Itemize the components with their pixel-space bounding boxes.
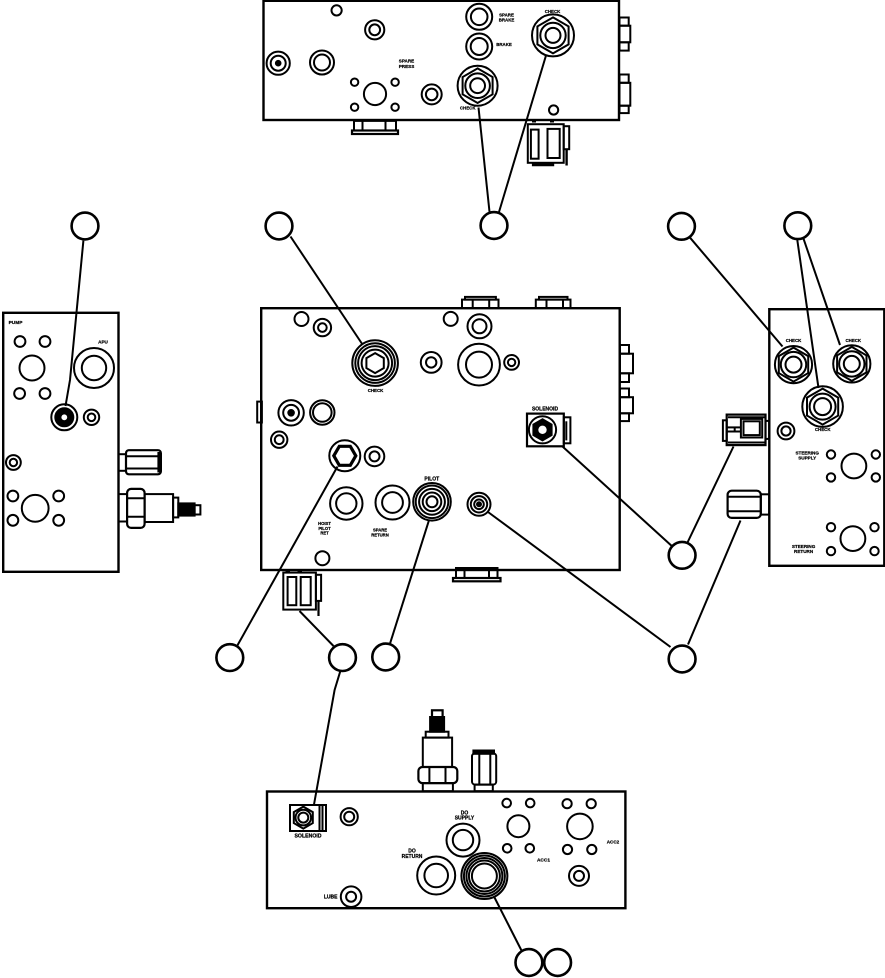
svg-text:PILOT: PILOT (424, 477, 439, 483)
hole (14, 388, 25, 399)
top fitting 2 (536, 297, 571, 308)
acc1 cluster (502, 799, 534, 853)
svg-text:SPARE: SPARE (399, 59, 415, 64)
side fitting right upper (620, 18, 631, 51)
bottom hex plug fitting (352, 121, 398, 134)
edge ring port (6, 455, 21, 470)
svg-text:SUPPLY: SUPPLY (798, 456, 816, 461)
balloon callout B12 (544, 949, 571, 976)
ring port (421, 352, 442, 373)
svg-text:ACC1: ACC1 (537, 857, 550, 863)
left edge stub fitting (257, 402, 262, 423)
leader center solenoid to B9 (563, 447, 672, 547)
svg-text:BRAKE: BRAKE (499, 17, 515, 22)
label HOIST PILOT RET (318, 521, 331, 536)
svg-text:APU: APU (98, 340, 108, 345)
hole top left (295, 312, 309, 326)
check port 1 (775, 346, 812, 383)
check port 2 (833, 345, 870, 382)
leader right hex fitting to B10 (688, 521, 741, 645)
small port (balloon 10 target) (468, 493, 491, 516)
electrical connector below center block (balloon 7 target) (283, 571, 321, 616)
big double ring port (458, 344, 500, 386)
solenoid connector fitting left side (balloon 9 target) (723, 415, 769, 446)
label SPARE RETURN (371, 528, 388, 538)
balloon callout B8 (372, 644, 399, 671)
balloon callout B1 (72, 213, 99, 240)
balloon callout B4 (668, 213, 695, 240)
large port (20, 356, 45, 381)
balloon callout B10 (669, 646, 696, 673)
svg-text:RETURN: RETURN (402, 854, 423, 860)
svg-text:CHECK: CHECK (368, 388, 384, 393)
label DO RETURN (402, 849, 423, 860)
side fitting right lower (620, 75, 631, 114)
svg-text:PRESS: PRESS (399, 64, 415, 69)
electrical connector below top block (528, 121, 569, 166)
hole top middle (444, 312, 458, 326)
balloon callout B6 (216, 644, 243, 671)
DO supply port (447, 824, 480, 857)
TOP MANIFOLD BLOCK (brake manifold, top view) (264, 1, 620, 120)
hoist pilot ret port (330, 487, 362, 519)
svg-text:RET: RET (320, 531, 329, 536)
right side fitting lower (620, 389, 633, 422)
balloon callout B9 (669, 542, 696, 569)
filled plug port (balloon 1 target) (51, 404, 77, 430)
leader B2 to center check port (291, 237, 363, 345)
svg-text:SOLENOID: SOLENOID (532, 407, 559, 413)
small ring port (84, 410, 99, 425)
balloon callout B2 (266, 213, 293, 240)
hole (40, 336, 51, 347)
APU port (74, 348, 114, 388)
ring port (310, 400, 334, 424)
ring port near solenoid (341, 808, 358, 825)
spare brake port (466, 4, 492, 30)
BOTTOM MANIFOLD BLOCK (267, 792, 625, 909)
steering return cluster (827, 523, 879, 555)
leader B5 to right-block check port 3 (797, 240, 818, 388)
lube ring port (341, 886, 362, 907)
small ring port (504, 355, 519, 370)
svg-text:SOLENOID: SOLENOID (294, 834, 321, 840)
port ring left (310, 51, 334, 75)
port ring center (422, 84, 442, 104)
svg-text:RETURN: RETURN (794, 549, 814, 554)
port with pin left (278, 400, 303, 425)
svg-text:CHECK: CHECK (545, 9, 561, 14)
check port 3 (802, 386, 843, 427)
leader B1 to pump-block port (66, 241, 84, 406)
leader B4 to right-block check port 1 (689, 237, 782, 347)
label SPARE BRAKE (499, 12, 515, 22)
balloon callout B7 (329, 644, 356, 671)
leader ACC1 port to B11 (495, 898, 522, 951)
solenoid valve (balloon 9 target) (527, 414, 570, 447)
CENTER MANIFOLD BLOCK (261, 308, 620, 570)
LEFT MANIFOLD BLOCK (pump block) (3, 313, 118, 572)
center check port (multi ring) (352, 340, 398, 386)
ACC1 port (balloon 11/12 target) (461, 853, 507, 899)
svg-text:CHECK: CHECK (460, 105, 476, 110)
brake port (466, 34, 492, 60)
small ring port (778, 423, 795, 440)
svg-text:ACC2: ACC2 (607, 839, 620, 844)
svg-text:CHECK: CHECK (786, 338, 802, 343)
relief valve fitting on right side (119, 489, 201, 528)
label STEERING SUPPLY (795, 451, 819, 461)
leader B7 to connector (300, 611, 334, 646)
hole (15, 336, 26, 347)
port ring upper middle (365, 20, 384, 39)
mounting circle cluster (351, 79, 399, 111)
bottom cluster holes (7, 491, 64, 526)
svg-text:BRAKE: BRAKE (496, 42, 512, 47)
label STEERING RETURN (792, 544, 816, 554)
svg-text:LUBE: LUBE (324, 895, 338, 901)
hex fitting left side (balloon 10 target) (728, 491, 770, 518)
leader B7 to bottom solenoid (314, 671, 340, 804)
label DO SUPPLY (455, 810, 475, 821)
sensor valve on top of bottom block (418, 710, 457, 791)
check port B (hex fitting) (532, 14, 574, 56)
svg-text:PUMP: PUMP (9, 320, 24, 326)
check port A (hex fitting) (458, 66, 498, 106)
balloon callout B5 (784, 212, 811, 239)
leader B3 to check port B (499, 56, 546, 213)
leader right connector to B9 (688, 447, 734, 543)
acc2 cluster (563, 799, 597, 854)
svg-text:SUPPLY: SUPPLY (455, 816, 475, 822)
leader B8 to pilot port (390, 521, 429, 645)
ring port (468, 314, 492, 338)
balloon callout B11 (516, 949, 543, 976)
hole (40, 388, 51, 399)
leader B6 to hex plug port (238, 467, 338, 646)
leader small port to B10 (488, 512, 671, 647)
svg-text:CHECK: CHECK (845, 338, 861, 343)
right side fitting upper (620, 345, 633, 382)
small ring port right (569, 866, 589, 886)
hex nut fitting on right side (119, 450, 161, 474)
bottom hex plug fitting (453, 568, 501, 581)
svg-text:CHECK: CHECK (815, 427, 831, 432)
balloon callout B3 (481, 212, 508, 239)
threaded plug on top of bottom block (472, 751, 496, 792)
port with pin, far left (267, 52, 290, 75)
small ring port (365, 447, 385, 467)
top fitting 1 (462, 297, 499, 308)
ring port (314, 319, 331, 336)
port hole top small (332, 5, 342, 15)
leader B3 to check port A (479, 108, 490, 212)
svg-text:RETURN: RETURN (371, 532, 388, 537)
DO return port (417, 857, 455, 895)
steering supply cluster (827, 450, 880, 481)
leader B5 to right-block check port 2 (804, 239, 841, 345)
spare return port (376, 486, 410, 520)
small ring port (271, 432, 287, 448)
pilot port (balloon 8 target) (413, 483, 451, 521)
label SPARE PRESS (399, 59, 415, 69)
RIGHT MANIFOLD BLOCK (steering) (769, 309, 884, 566)
small hole lower right (549, 105, 558, 114)
hole bottom left (315, 551, 329, 565)
hex plug port (balloon 6 target) (329, 440, 360, 471)
solenoid valve (balloon 7 lower target) (290, 805, 326, 831)
